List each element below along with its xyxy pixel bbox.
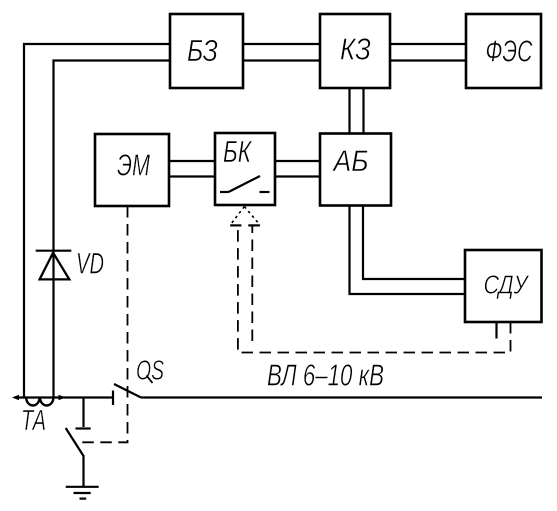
wire: solid stub below СДУ xyxy=(495,322,497,339)
block ФЭС xyxy=(466,14,541,88)
svg-text:КЗ: КЗ xyxy=(340,32,371,67)
svg-text:ВЛ 6–10 кВ: ВЛ 6–10 кВ xyxy=(267,358,384,393)
current transformer TA windings xyxy=(26,398,53,406)
wire pair БЗ to КЗ xyxy=(243,43,320,45)
earthing switch blade xyxy=(66,428,84,456)
wire: inner АБ down then right into СДУ xyxy=(363,206,465,280)
power line ВЛ left segment with left arrowhead xyxy=(15,396,112,398)
dashed right shaft of БК arrow xyxy=(251,225,253,341)
disconnector QS fixed contact bar xyxy=(112,391,114,406)
earthing switch fixed contact bar xyxy=(76,427,91,429)
wire pair КЗ to ФЭС xyxy=(390,43,466,45)
block КЗ xyxy=(320,14,390,88)
hollow arrowhead into БК (dotted sides) xyxy=(230,207,260,226)
wire pair КЗ down to АБ xyxy=(348,88,350,134)
svg-text:ЭМ: ЭМ xyxy=(117,148,150,183)
dashed mechanical link from ЭМ down and left to earthing switch xyxy=(76,206,128,442)
block СДУ xyxy=(465,250,542,322)
ground symbol xyxy=(66,487,99,499)
power line ВЛ right segment xyxy=(141,396,542,398)
wire pair БК to АБ xyxy=(275,160,320,162)
svg-text:ФЭС: ФЭС xyxy=(486,34,533,69)
block ЭМ xyxy=(95,134,169,206)
block БЗ xyxy=(170,14,243,88)
wire: earthing switch to ground xyxy=(82,455,84,486)
block АБ xyxy=(320,134,391,206)
wire pair ЭМ to БК xyxy=(169,160,215,162)
wire: outer left feeder from line TA up and right into БЗ xyxy=(24,44,170,398)
wire: outer АБ down then right into СДУ xyxy=(350,206,466,295)
block БК xyxy=(215,133,275,205)
dashed control link СДУ to БК (stub, horizontal run, left shaft) xyxy=(238,225,511,352)
svg-text:БК: БК xyxy=(223,134,252,169)
wire: inner left feeder from line TA up and right into БЗ xyxy=(54,61,171,398)
svg-text:БЗ: БЗ xyxy=(187,33,218,68)
diode VD xyxy=(36,251,72,280)
svg-text:АБ: АБ xyxy=(332,145,369,178)
switch contact symbol inside БК xyxy=(220,176,270,192)
svg-text:VD: VD xyxy=(76,248,104,281)
svg-text:ТА: ТА xyxy=(21,405,46,437)
earthing switch stub from line xyxy=(82,398,84,428)
svg-text:СДУ: СДУ xyxy=(484,270,530,300)
arrowhead right of TA pointing right xyxy=(59,395,66,400)
arrowhead left end of line xyxy=(12,395,19,400)
disconnector QS blade xyxy=(114,384,141,398)
